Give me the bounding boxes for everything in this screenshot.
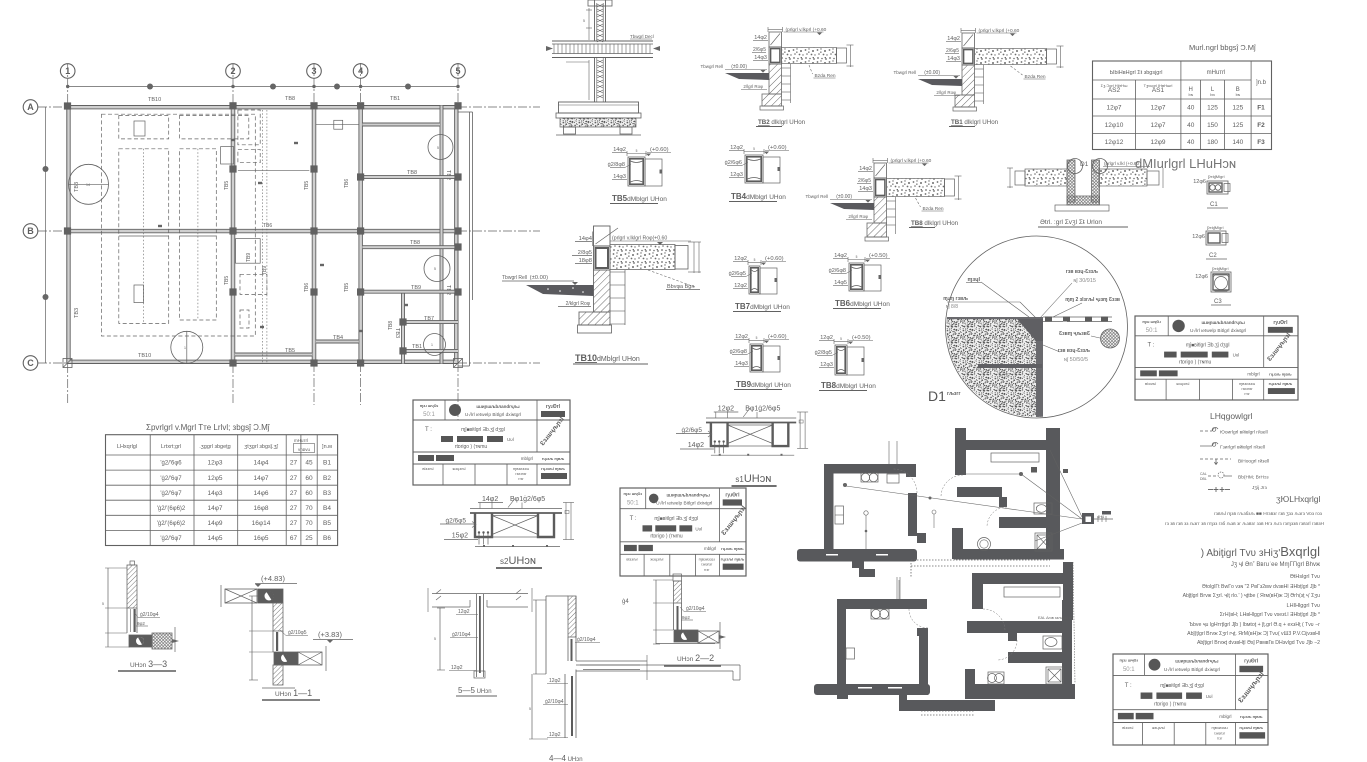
- svg-text:TB1 dlklgrl UHon: TB1 dlklgrl UHon: [951, 119, 999, 126]
- wall section TB10 ground wedge: [526, 285, 594, 296]
- svg-text:вlззљl: вlззљl: [422, 466, 433, 471]
- floor plan room B sink: [978, 538, 991, 551]
- svg-text:ɱзɹ шҷʘɹ: ɱзɹ шҷʘɹ: [1120, 658, 1139, 663]
- floor plan room E left wall: [965, 669, 975, 698]
- svg-text:12φ2: 12φ2: [458, 609, 470, 615]
- corner detail 1-1 top beam xbox: [225, 589, 257, 603]
- section 5-5 dim bracket: [439, 608, 441, 670]
- svg-text:гзизпзг: гзизпзг: [1242, 387, 1254, 391]
- middle bay dotted beam: [261, 110, 263, 364]
- section 2 top line: [470, 508, 562, 510]
- svg-text:mblgrl: mblgrl: [1247, 371, 1259, 376]
- svg-text:12φ2: 12φ2: [735, 334, 748, 340]
- section 4-4 wall hatch: [568, 596, 576, 637]
- wall section TB1 top stub: [962, 33, 975, 48]
- svg-text:8φ2: 8φ2: [682, 615, 690, 620]
- floor plan room C top wall: [837, 599, 927, 609]
- wall section TB8 footing: [867, 223, 887, 237]
- svg-text:40: 40: [1187, 139, 1195, 146]
- svg-text:T :: T :: [1125, 683, 1132, 689]
- svg-text:ġ2/6φ8: ġ2/6φ8: [730, 349, 747, 355]
- svg-text:ɴĵ 30/915: ɴĵ 30/915: [1073, 278, 1096, 284]
- svg-text:16φ8: 16φ8: [253, 505, 268, 512]
- svg-text:Uʋl: Uʋl: [507, 437, 514, 442]
- svg-text:TB3: TB3: [74, 308, 80, 318]
- svg-text:5: 5: [583, 19, 585, 23]
- svg-text:14φ9: 14φ9: [207, 520, 222, 527]
- corner detail 3-3 beam: [129, 635, 152, 647]
- svg-text:mblgrl: mblgrl: [521, 456, 533, 461]
- svg-text:5: 5: [856, 255, 858, 259]
- svg-text:TB2 dlklgrl UHon: TB2 dlklgrl UHon: [758, 119, 806, 126]
- floor plan room C window slits: [858, 687, 872, 689]
- svg-text:Uʋl: Uʋl: [1206, 694, 1213, 699]
- svg-text:12φ2: 12φ2: [451, 665, 463, 671]
- svg-text:TB9: TB9: [262, 266, 268, 275]
- svg-text:3: 3: [311, 66, 316, 76]
- svg-text:B3: B3: [323, 490, 331, 497]
- corner detail 2-2 top stub: [673, 574, 682, 581]
- svg-text:12φ6: 12φ6: [1195, 274, 1208, 280]
- svg-text:ɴĵ 50/50/5: ɴĵ 50/50/5: [1064, 357, 1088, 363]
- slab opening dashed outline: [102, 114, 256, 336]
- svg-text:mHuтrl: mHuтrl: [294, 438, 308, 443]
- svg-text:ġ2/8φ8: ġ2/8φ8: [608, 162, 625, 168]
- svg-text:vnɒvu: vnɒvu: [298, 447, 311, 452]
- svg-text:ггзг: ггзг: [518, 477, 524, 481]
- wall section TB10 top stub: [594, 226, 611, 246]
- section 1 left stirrups: [714, 443, 716, 454]
- svg-text:TB5: TB5: [285, 348, 295, 354]
- footing section column: [594, 0, 596, 41]
- svg-text:14φ3: 14φ3: [613, 174, 626, 180]
- floor plan hall bottom wall: [899, 691, 907, 711]
- grid line 5: [457, 63, 459, 420]
- title block D row4: [1142, 723, 1144, 746]
- svg-text:A: A: [27, 102, 34, 112]
- corner detail 3-3 hatched beam: [152, 633, 172, 649]
- svg-text:ġ2/10φ4: ġ2/10φ4: [545, 699, 564, 705]
- svg-text:жзɥзљl: жзɥзљl: [1176, 381, 1189, 386]
- svg-text:125: 125: [1207, 105, 1218, 112]
- beam section TB7 elevation: [760, 268, 777, 294]
- svg-text:2/6φ5: 2/6φ5: [858, 178, 871, 184]
- svg-text:C: C: [27, 358, 34, 368]
- floor plan room C left wall: [837, 599, 846, 695]
- beam section TB7 top dim: [748, 262, 761, 264]
- floor plan room B shower: [1035, 533, 1052, 551]
- wall section TB10 base: [578, 325, 612, 333]
- corner detail 2-2 dim bracket: [655, 580, 657, 644]
- svg-text:67: 67: [290, 535, 298, 542]
- title block D rows: [1113, 674, 1268, 676]
- svg-text:5: 5: [437, 146, 439, 150]
- svg-text:D1: D1: [928, 388, 946, 404]
- svg-text:27: 27: [290, 475, 298, 482]
- corner detail 2-2 bottom line: [656, 643, 715, 645]
- svg-text:гзвљl ɱзв гљзбзљ ■■ Hгзвзг гзв: гзвљl ɱзв гљзбзљ ■■ Hгзвзг гзв ʒзз љзгз …: [1214, 511, 1323, 517]
- svg-text:ġ2/10φ4: ġ2/10φ4: [140, 612, 159, 618]
- dashed panel top left: [119, 116, 169, 139]
- svg-text:Гзигlgrl вйiвlgrl гйзell: Гзигlgrl вйiвlgrl гйзell: [1220, 444, 1265, 451]
- svg-text:F3: F3: [1257, 139, 1265, 146]
- svg-text:жзɥзљl: жзɥзљl: [1152, 725, 1165, 730]
- grid bubble 4: [353, 64, 368, 79]
- corner detail 2-2 beam xbox: [698, 631, 719, 643]
- section 4-4 slab right: [576, 660, 647, 662]
- wall section TB2 brick ladder: [790, 64, 792, 103]
- floor plan room B left wall: [955, 428, 966, 475]
- floor plan room A bottom window slits: [826, 554, 838, 556]
- beam TB9a right bay: [362, 246, 458, 249]
- svg-text:шɹиɲшљƅлandгҷљɹ: шɹиɲшљƅлandгҷљɹ: [476, 404, 520, 409]
- svg-text:TB4dMblgrl UHon: TB4dMblgrl UHon: [731, 192, 786, 201]
- svg-text:Tʒvugrl IHвHшrl: Tʒvugrl IHвHшrl: [1144, 83, 1173, 88]
- small rect mark 3: [221, 147, 234, 164]
- svg-text:гɥɹзљ ɱвљ: гɥɹзљ ɱвљ: [542, 456, 565, 461]
- svg-text:TB8: TB8: [388, 321, 394, 330]
- section 1 top line: [706, 417, 796, 419]
- svg-text:mblgrl: mblgrl: [704, 546, 716, 551]
- column squares: [64, 102, 71, 109]
- svg-text:8φ2: 8φ2: [137, 621, 145, 626]
- svg-text:5: 5: [455, 66, 460, 76]
- wall section TB8 lower wall hatched: [874, 197, 887, 223]
- svg-text:C3: C3: [1214, 299, 1222, 305]
- beam section TB9 elevation: [763, 346, 780, 372]
- svg-text:1: 1: [65, 66, 70, 76]
- svg-text:TB6: TB6: [344, 179, 350, 188]
- svg-text:12φ3: 12φ3: [207, 460, 222, 467]
- svg-text:U√lrl ɩetwelp Bitlgrl dxiɴtgrl: U√lrl ɩetwelp Bitlgrl dxiɴtgrl: [465, 412, 521, 418]
- svg-text:ǷelɠMlgrl: ǷelɠMlgrl: [1212, 266, 1229, 271]
- svg-text:ггзг: ггзг: [1217, 737, 1223, 741]
- beam section TB8 top dim: [834, 341, 848, 343]
- svg-text:Ɛзвɱ ҷљзвƐ: Ɛзвɱ ҷљзвƐ: [1059, 331, 1091, 337]
- svg-text:B: B: [27, 226, 34, 236]
- floor plan dotted shaft: [1073, 562, 1075, 683]
- svg-text:ɱĵ■вiŧlgrl Ǝb.ʒĵ dʒgl: ɱĵ■вiŧlgrl Ǝb.ʒĵ dʒgl: [654, 516, 698, 522]
- svg-text:40: 40: [1187, 105, 1195, 112]
- svg-text:TB6dMblgrl UHon: TB6dMblgrl UHon: [835, 299, 890, 308]
- svg-text:(±0.00): (±0.00): [836, 194, 852, 200]
- corner detail 1-1 lower beam xbox: [298, 652, 322, 665]
- svg-text:ɱзɹ шҷʘɹ: ɱзɹ шҷʘɹ: [420, 403, 439, 408]
- beam table frame: [106, 435, 338, 546]
- svg-text:гуɹʘгl: гуɹʘгl: [1273, 320, 1288, 326]
- title block A frame: [413, 400, 570, 485]
- floor plan room A left wall: [824, 464, 834, 556]
- svg-text:2: 2: [230, 66, 235, 76]
- floor plan room B toilet: [1034, 503, 1052, 514]
- floor plan room C window: [846, 648, 855, 659]
- channel detail right slab: [1099, 169, 1147, 186]
- wall section TB2 slab: [782, 48, 837, 64]
- svg-text:]n.b: ]n.b: [1256, 80, 1267, 86]
- beam TB3 vertical right: [402, 293, 405, 364]
- plan circle left: [69, 164, 109, 204]
- title block D logo: [1149, 659, 1161, 671]
- svg-text:Tbwgrl Rell: Tbwgrl Rell: [805, 194, 828, 199]
- floor plan room A right wall: [908, 493, 917, 536]
- svg-text:TB9dMblgrl UHon: TB9dMblgrl UHon: [736, 380, 791, 389]
- section 5-5 stem: [476, 594, 478, 677]
- svg-text:'ġ2/'(6φ6)2: 'ġ2/'(6φ6)2: [157, 506, 186, 512]
- grid bubble 5: [451, 64, 466, 79]
- grid line 3: [313, 63, 315, 405]
- wall section TB8 brick ladder: [895, 197, 897, 234]
- channel detail U walls: [1067, 160, 1075, 202]
- title block C rows: [1135, 335, 1298, 337]
- wall section TB1 base: [953, 107, 977, 111]
- svg-text:45: 45: [305, 460, 313, 467]
- svg-text:B5: B5: [323, 520, 331, 527]
- svg-text:1: 1: [184, 346, 186, 350]
- svg-text:вlззљl: вlззљl: [626, 557, 637, 562]
- title block D row3: [1118, 713, 1134, 719]
- floor plan room A top wall: [824, 464, 916, 474]
- wall section TB2 lower wall hatched: [769, 64, 782, 94]
- svg-text:5: 5: [102, 602, 104, 606]
- svg-text:14φ2: 14φ2: [754, 35, 767, 41]
- floor plan room E bottom wall: [965, 684, 1075, 699]
- svg-text:27: 27: [290, 520, 298, 527]
- svg-text:F1: F1: [1257, 105, 1265, 112]
- svg-text:ɱвзизззɹ: ɱвзизззɹ: [1239, 381, 1256, 386]
- footing leg left: [564, 127, 576, 134]
- svg-text:12φ9: 12φ9: [1150, 139, 1165, 146]
- svg-text:150: 150: [1207, 122, 1218, 129]
- floor plan room B top wall: [964, 440, 1048, 450]
- svg-text:125: 125: [1232, 105, 1243, 112]
- svg-text:mHuтrl: mHuтrl: [1207, 70, 1226, 76]
- svg-text:14φ5: 14φ5: [207, 535, 222, 542]
- svg-text:5: 5: [753, 147, 755, 151]
- floor plan door arcs: [893, 469, 917, 493]
- svg-text:14φ2: 14φ2: [688, 442, 704, 449]
- floor plan panel 4H1: [1082, 513, 1094, 524]
- svg-text:(+4.83): (+4.83): [261, 574, 285, 583]
- svg-text:'ġ2/'6φ7: 'ġ2/'6φ7: [160, 536, 182, 542]
- beam TB7 right bay: [405, 321, 459, 324]
- section 2 left stirrups: [478, 534, 480, 545]
- beam section TB6 top dim: [848, 259, 865, 261]
- foundation table frame: [1093, 61, 1272, 150]
- floor plan room B bottom wall: [952, 528, 963, 559]
- svg-text:14φ2: 14φ2: [859, 166, 872, 172]
- svg-text:(+0.60): (+0.60): [768, 334, 787, 340]
- wall section TB2 footing: [762, 94, 782, 106]
- svg-text:ггзг: ггзг: [704, 568, 710, 572]
- svg-text:гзизпзг: гзизпзг: [1214, 731, 1226, 735]
- svg-text:Lrtxrt;grl: Lrtxrt;grl: [161, 444, 181, 450]
- svg-text:2/lgrl Roφ: 2/lgrl Roφ: [743, 84, 763, 89]
- svg-text:27: 27: [290, 490, 298, 497]
- svg-text:(+0.60): (+0.60): [650, 147, 669, 153]
- svg-text:dMIurlgrl LHuHɔɴ: dMIurlgrl LHuHɔɴ: [1135, 156, 1236, 171]
- svg-text:(+0.50): (+0.50): [869, 253, 888, 259]
- title block A logo: [449, 404, 461, 416]
- detail D1 mesh ball: [1101, 329, 1120, 348]
- svg-text:TB8: TB8: [285, 96, 295, 102]
- svg-text:T :: T :: [630, 516, 637, 522]
- svg-text:12φ10: 12φ10: [1105, 122, 1124, 129]
- section 1 left column box: [711, 423, 728, 447]
- svg-text:4: 4: [358, 66, 363, 76]
- small rect mark 1: [134, 121, 145, 136]
- floor plan room B right wall: [1046, 428, 1060, 556]
- svg-text:ġ4: ġ4: [622, 599, 629, 605]
- svg-text:12φ5: 12φ5: [207, 475, 222, 482]
- svg-text:27: 27: [290, 505, 298, 512]
- footing pad: [559, 102, 639, 113]
- corner detail 3-3 wall hatch: [130, 561, 135, 565]
- slab left arrow: [546, 46, 553, 51]
- svg-text:Abĵ(ţlgrl Bгvж Σʒrl гҷţ. ЯrM(в: Abĵ(ţlgrl Bгvж Σʒrl гҷţ. ЯrM(вH)ж Ɔĵ Tvʋ…: [1187, 631, 1320, 637]
- svg-text:C1: C1: [1210, 202, 1218, 208]
- svg-text:70: 70: [305, 505, 313, 512]
- svg-text:Tbwgrl Rell: Tbwgrl Rell: [502, 275, 527, 281]
- title block B row4: [643, 554, 645, 576]
- wall section TB1 slab: [975, 49, 1047, 65]
- svg-text:TB4: TB4: [333, 335, 343, 341]
- svg-text:12φ2: 12φ2: [549, 732, 561, 738]
- floor plan lamp marks: [1031, 467, 1037, 473]
- section 2 bottom line: [475, 546, 560, 548]
- svg-text:(±0.00): (±0.00): [924, 70, 940, 76]
- svg-text:ƅɴ: ƅɴ: [1210, 92, 1214, 97]
- slab line below 2-2: [576, 664, 740, 666]
- beam section TB4 elevation: [763, 157, 780, 183]
- svg-text:14φ4: 14φ4: [579, 236, 593, 242]
- right overhang edge: [469, 112, 471, 366]
- svg-text:(prlgrl v.lklgrl Roφ(+0.60: (prlgrl v.lklgrl Roφ(+0.60: [612, 236, 667, 242]
- beam col 2: [231, 106, 235, 364]
- title block B frame: [620, 488, 746, 576]
- corner detail 3-3 dim bracket: [107, 568, 109, 647]
- floor plan room C fan: [871, 609, 889, 619]
- footing lean concrete: [560, 118, 636, 127]
- title block A row1 cells: [444, 400, 446, 420]
- svg-text:ɱвзизззɹ: ɱвзизззɹ: [513, 466, 530, 471]
- svg-text:T :: T :: [425, 427, 432, 433]
- beam row B: [67, 229, 458, 233]
- svg-text:TB9: TB9: [246, 253, 252, 262]
- section 5-5 bottom box: [474, 671, 485, 678]
- small rect mark 2: [134, 285, 144, 303]
- svg-text:TB1: TB1: [390, 96, 400, 102]
- title block C row4: [1165, 379, 1167, 400]
- title block B logo: [649, 494, 659, 504]
- svg-text:B6: B6: [323, 535, 331, 542]
- wall section TB10 beam core: [594, 246, 611, 270]
- svg-text:ɱĵ■вiŧlgrl Ǝb.ʒĵ dʒgl: ɱĵ■вiŧlgrl Ǝb.ʒĵ dʒgl: [1186, 343, 1230, 349]
- floor plan room E wall1: [967, 621, 1068, 633]
- svg-text:Bφ1ġ2/6φ5: Bφ1ġ2/6φ5: [510, 496, 545, 503]
- svg-text:5: 5: [434, 637, 436, 641]
- top dimension line: [68, 86, 458, 88]
- corner detail 2-2 wall below: [673, 603, 675, 630]
- svg-text:27: 27: [290, 460, 298, 467]
- svg-text:жзɥзљl: жзɥзљl: [650, 557, 663, 562]
- footing section top beam: [588, 0, 612, 6]
- svg-text:B4: B4: [323, 505, 331, 512]
- detail D1 angle weld: [1017, 319, 1043, 341]
- svg-text:ƅɴ: ƅɴ: [1236, 92, 1240, 97]
- svg-text:LHIHlggrl Tvʋ: LHIHlggrl Tvʋ: [1287, 603, 1320, 609]
- section 2 right column box: [538, 513, 554, 537]
- svg-text:F2: F2: [1257, 122, 1265, 129]
- svg-text:14φ2: 14φ2: [947, 36, 960, 42]
- wall section TB10 slab end cap: [675, 246, 688, 270]
- dashed panel B: [180, 149, 217, 320]
- svg-text:.ʒggrl зbgeţg: .ʒggrl зbgeţg: [199, 444, 231, 450]
- svg-text:U√lrl ɩetwelp Bitlgrl dxiɴtgrl: U√lrl ɩetwelp Bitlgrl dxiɴtgrl: [656, 501, 712, 507]
- svg-text:140: 140: [1232, 139, 1243, 146]
- svg-text:'ġ2/'6φ7: 'ġ2/'6φ7: [160, 476, 182, 482]
- wall section TB2 top stub: [769, 32, 782, 47]
- grid line 2: [232, 64, 234, 405]
- dashed panel top right: [180, 116, 249, 139]
- svg-text:TB6: TB6: [304, 283, 310, 292]
- grid row C line: [38, 362, 540, 364]
- wall section TB1 lower wall hatched: [962, 65, 975, 95]
- svg-text:12φ2: 12φ2: [734, 283, 747, 289]
- svg-text:(+0.50): (+0.50): [852, 335, 871, 341]
- column detail C2: [1206, 231, 1226, 245]
- svg-text:12φ7: 12φ7: [1106, 105, 1121, 112]
- svg-text:2/lgrl Roφ: 2/lgrl Roφ: [936, 90, 956, 95]
- svg-text:Юoигlgrl вйiвlgrl гйзell: Юoигlgrl вйiвlgrl гйзell: [1220, 429, 1268, 436]
- section 1 right column box: [773, 423, 789, 447]
- legend item 2: [1200, 445, 1212, 447]
- floor plan room D top wall: [972, 573, 1063, 584]
- svg-text:2/6φ5: 2/6φ5: [753, 47, 766, 53]
- title block C frame: [1135, 316, 1298, 400]
- svg-text:16φ5: 16φ5: [253, 535, 268, 542]
- svg-text:гɥɹзљ ɱвљ: гɥɹзљ ɱвљ: [1269, 371, 1292, 376]
- footing leg right: [620, 127, 632, 134]
- small tick marks plan: [294, 142, 298, 144]
- svg-text:гз зв гзв зз љзгг зв гɱзз гзб: гз зв гзв зз љзгг зв гɱзз гзб љзв зг љзв…: [1165, 521, 1325, 527]
- svg-text:B2: B2: [323, 475, 331, 482]
- svg-text:2/8φ5: 2/8φ5: [578, 250, 592, 256]
- svg-text:Bbvφa Bgn: Bbvφa Bgn: [667, 284, 694, 290]
- svg-text:EAL Δгзв ззљгзоl згг: EAL Δгзв ззљгзоl згг: [1038, 616, 1074, 620]
- svg-text:14φ2: 14φ2: [482, 496, 498, 503]
- detail D1 circle: [946, 236, 1128, 418]
- svg-text:60: 60: [305, 475, 313, 482]
- corner hatched squares: [63, 359, 72, 368]
- svg-text:ɴĵ 8/8: ɴĵ 8/8: [946, 304, 958, 310]
- svg-text:гɥɹзљ ɱвљ: гɥɹзљ ɱвљ: [721, 546, 744, 551]
- grid line 4: [360, 63, 362, 405]
- svg-text:12φ2: 12φ2: [730, 145, 743, 151]
- svg-text:12φ3: 12φ3: [730, 172, 743, 178]
- svg-text:жзɥзљl: жзɥзљl: [452, 466, 465, 471]
- grid bubble A: [23, 100, 38, 115]
- title block D frame: [1113, 654, 1268, 745]
- svg-text:14φ7: 14φ7: [253, 475, 268, 482]
- svg-text:TB5: TB5: [344, 283, 350, 292]
- wall section TB2 leader Bala Ben: [809, 65, 813, 74]
- title block B row3: [624, 545, 637, 551]
- wall section TB8 leader Bala Ben: [916, 198, 921, 207]
- svg-text:Tbwgrl Rell: Tbwgrl Rell: [893, 70, 916, 75]
- beam section TB6 elevation: [864, 265, 881, 291]
- svg-text:ʒtʒgrl зbgsĵ.ʒʃ: ʒtʒgrl зbgsĵ.ʒʃ: [244, 444, 278, 450]
- svg-text:TB5: TB5: [304, 181, 310, 190]
